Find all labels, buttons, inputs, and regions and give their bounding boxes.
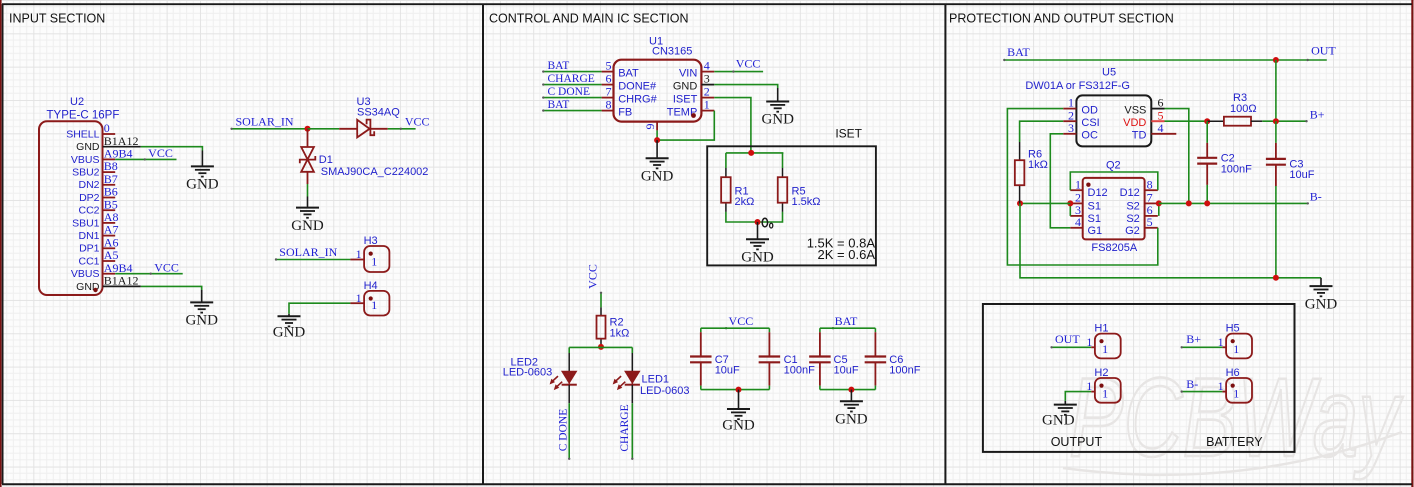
svg-text:LED-0603: LED-0603 [640,385,690,397]
node junction B- / VSS drop [1186,200,1192,206]
U5 pin 5 VDD [1123,108,1164,129]
U1 pin 8 FB [602,98,633,119]
U2 pin B1A12 GND [76,134,141,153]
svg-text:1: 1 [371,254,377,268]
TVS diode D1 SMAJ90CA [300,129,429,197]
svg-text:GND: GND [76,141,100,153]
svg-text:GND: GND [186,177,219,193]
net flag VCC (U1 VIN) [714,57,763,73]
node junction BAT caps ground [848,387,854,393]
IC U5 DW01A [1025,66,1151,146]
U2 pin A7 DN1 [78,223,118,242]
svg-text:S1: S1 [1088,213,1101,225]
svg-text:1kΩ: 1kΩ [1028,159,1048,171]
ground (H4) [273,314,306,341]
text ISET ratio notes [807,235,876,262]
svg-text:ISET: ISET [835,127,862,141]
svg-text:4: 4 [704,59,710,73]
svg-text:LED1: LED1 [642,373,670,385]
svg-text:10uF: 10uF [1289,169,1314,181]
svg-text:BAT: BAT [1007,45,1030,59]
node junction U1 pin9/TEMP ground [654,137,660,143]
header H5 [1218,323,1252,359]
connector group box OUTPUT/BATTERY [983,304,1295,452]
svg-text:2: 2 [704,85,710,99]
net label OUT (H1) [1050,332,1091,349]
svg-text:OC: OC [1081,130,1098,142]
Q2 pin 3 S1 [1070,203,1101,225]
svg-text:1: 1 [356,291,362,305]
wire VSS to B- rail [1165,109,1189,204]
node junction VDD/C2/R3 [1204,118,1210,124]
net flag VCC (U2 upper VBUS) [115,146,176,160]
svg-text:G1: G1 [1088,225,1103,237]
header H3 [356,235,390,272]
net label B+ (H5) [1181,332,1223,349]
svg-text:2K = 0.6A: 2K = 0.6A [818,247,876,262]
svg-text:DN2: DN2 [78,179,99,191]
wire R1 branch top [725,153,727,168]
U1 pin 3 GND [673,72,714,93]
svg-text:CN3165: CN3165 [652,46,692,58]
svg-text:100nF: 100nF [784,365,815,377]
U5 pin 4 TD [1132,121,1177,142]
node junction VCC caps ground [736,387,742,393]
node junction B- / C2 [1204,200,1210,206]
svg-text:CSI: CSI [1081,117,1099,129]
U2 pin 0 SHELL [66,121,115,140]
Q2 pin 7 S2 [1126,191,1157,213]
svg-text:ISET: ISET [673,93,698,105]
wire CSI to R6 [1020,121,1064,142]
net flag VCC (rotated, R2) [585,264,602,307]
svg-text:DONE#: DONE# [618,80,657,92]
ground (H2) [1042,401,1077,428]
ground (U1 pin3) [761,88,794,128]
wire U1 GND pin3 to ground [714,85,777,88]
svg-text:OD: OD [1081,104,1098,116]
U2 pin B8 SBU2 [72,159,118,178]
capacitor C7 [690,328,740,389]
net label BAT (U1 left) [542,99,602,112]
ISET block frame [707,127,876,266]
svg-text:5: 5 [1147,215,1153,229]
svg-text:H6: H6 [1226,367,1240,379]
svg-text:3: 3 [1068,121,1074,135]
resistor R6 [1015,142,1048,203]
svg-text:SS34AQ: SS34AQ [357,106,400,118]
ground (U2 bottom GND) [185,290,218,329]
svg-text:4: 4 [1158,121,1164,135]
svg-text:GND: GND [641,168,674,184]
U1 pin 9 [643,122,657,141]
no-connect marks [762,218,773,228]
wire Q2 drain tie loop (pins 1-8) [1070,172,1158,190]
svg-text:H5: H5 [1226,323,1240,335]
U2 anchor dot [93,288,97,292]
wire U2 GND(top) to ground [141,147,203,151]
svg-text:SOLAR_IN: SOLAR_IN [236,114,294,128]
U1 pin 7 CHRG# [602,85,658,106]
LED LED1 [613,372,640,391]
node junction Q2 S1 [1067,200,1073,206]
svg-text:B1A12: B1A12 [104,274,139,288]
svg-text:1: 1 [1218,379,1224,393]
wire LED2 cathode / net C DONE [558,385,571,460]
svg-text:VCC: VCC [405,115,430,129]
svg-text:VSS: VSS [1124,104,1146,116]
svg-text:BAT: BAT [548,60,570,72]
ground (protection) [1305,278,1338,312]
svg-text:CHARGE: CHARGE [619,404,631,451]
ground (D1) [291,197,324,234]
svg-text:CHARGE: CHARGE [548,73,595,85]
svg-text:DP1: DP1 [79,243,100,255]
wire LED1 cathode / net CHARGE [619,385,634,460]
svg-text:2kΩ: 2kΩ [735,196,755,208]
svg-text:S2: S2 [1126,213,1139,225]
svg-text:VCC: VCC [736,57,761,71]
U1 pin 1 TEMP [667,98,715,119]
svg-text:GND: GND [1042,412,1075,428]
wire B- rail [1020,202,1308,204]
U1 pin 2 ISET [673,85,714,106]
net flag VCC (U2 lower VBUS) [115,260,183,274]
connector U2 TYPE-C 16PF [39,96,119,295]
wire Q2 S1 tie (pins 2-3) [1069,203,1071,216]
svg-text:H3: H3 [364,235,378,247]
U5 pin 6 VSS [1124,96,1164,117]
svg-text:1: 1 [371,298,377,312]
U5 pin 2 CSI [1063,108,1100,129]
svg-text:1: 1 [1075,177,1081,191]
svg-text:4: 4 [1075,215,1081,229]
svg-text:GND: GND [291,218,324,234]
net label C DONE (U1 left) [542,86,602,99]
node junction ISET top [748,150,754,156]
svg-text:8: 8 [1147,177,1153,191]
svg-text:S2: S2 [1126,200,1139,212]
svg-text:GND: GND [673,80,698,92]
svg-text:OUT: OUT [1055,332,1080,346]
svg-text:1: 1 [1086,379,1092,393]
svg-text:B-: B- [1310,190,1322,204]
wire Q2 S2 tie (pins 6-7) [1158,203,1160,216]
node junction Q2 S2 [1156,200,1162,206]
capacitor C5 [809,328,859,389]
svg-text:VCC: VCC [154,260,179,274]
svg-text:H2: H2 [1094,367,1108,379]
svg-text:100nF: 100nF [889,365,920,377]
node junction SOLAR_IN [305,126,311,132]
svg-text:H1: H1 [1094,323,1108,335]
svg-text:VBUS: VBUS [71,268,100,280]
net label BAT (top rail) [1003,45,1327,61]
U2 pin B5 CC2 [78,197,117,216]
svg-text:H4: H4 [364,280,378,292]
wire H4 to ground [289,303,364,314]
net flag BAT (decoupling group) [832,314,858,330]
U5 pin 3 OC [1063,121,1098,142]
svg-text:BAT: BAT [548,99,570,111]
capacitor C3 [1266,121,1315,186]
svg-text:1.5kΩ: 1.5kΩ [792,196,821,208]
net label BAT (U1 left) [542,60,602,73]
svg-text:SBU1: SBU1 [72,217,100,229]
header H2 [1086,367,1120,403]
svg-text:1: 1 [1102,342,1108,356]
U5 pin 1 OD [1063,96,1098,117]
wire VCC cap rails [701,328,770,389]
svg-text:OUT: OUT [1311,44,1336,58]
wire ISET top rail [726,152,784,154]
svg-text:GND: GND [722,418,755,434]
node junction R6/S1 node [1017,200,1023,206]
svg-text:FS8205A: FS8205A [1091,242,1138,254]
wire S1 node to ground rail [1020,203,1321,277]
capacitor C6 [865,328,921,389]
svg-text:Q2: Q2 [1106,160,1121,172]
svg-text:G2: G2 [1125,225,1140,237]
net label SOLAR_IN (H3) [275,245,351,261]
svg-text:PROTECTION AND OUTPUT SECTION: PROTECTION AND OUTPUT SECTION [949,12,1174,26]
U2 pin B7 DN2 [78,172,117,191]
transistor Q2 FS8205A [1083,160,1145,254]
svg-text:CHRG#: CHRG# [618,93,657,105]
header H4 [356,280,390,316]
svg-text:VCC: VCC [585,264,599,289]
ground (VCC caps) [722,390,755,434]
wire R5 branch top [782,153,784,168]
svg-text:C DONE: C DONE [548,86,591,98]
text LED1 labels [640,373,690,397]
wire C3 bottom to ground rail [1275,186,1277,278]
wire R3 to B+ [1262,120,1306,122]
svg-text:VIN: VIN [679,67,697,79]
svg-text:B+: B+ [1186,332,1201,346]
svg-text:GND: GND [273,325,306,341]
ground (ISET) [741,222,774,265]
resistor R1 [721,168,754,212]
wire top rail to B+ node [1275,60,1277,121]
svg-text:INPUT SECTION: INPUT SECTION [9,12,105,26]
U2 pin A5 CC1 [78,248,118,267]
net label B+ [1305,108,1324,123]
svg-text:S1: S1 [1088,200,1101,212]
text LED2 labels [503,356,553,378]
wire U1 ISET pin2 to ISET network [714,98,751,153]
wire ISET bottom rail [726,212,783,222]
diode U3 SS34AQ [339,96,400,137]
net label CHARGE (U1 left) [542,73,602,86]
IC U1 CN3165 [614,35,702,121]
svg-text:TYPE-C 16PF: TYPE-C 16PF [47,109,120,121]
svg-text:GND: GND [1305,296,1338,312]
svg-text:100nF: 100nF [1221,163,1252,175]
svg-text:1: 1 [1218,335,1224,349]
svg-text:1: 1 [1102,387,1108,401]
svg-text:GND: GND [835,411,868,427]
Q2 pin 6 S2 [1126,203,1157,225]
svg-text:FB: FB [618,106,632,118]
svg-text:D1: D1 [319,154,333,166]
wire H5 pin stub [1222,346,1226,348]
wire SOLAR_IN to D1/U3 [308,128,340,130]
net label B- [1307,190,1322,205]
wire H6 pin stub [1222,391,1226,393]
svg-text:GND: GND [185,313,218,329]
wire OC to G1 (pin4) [1050,134,1070,228]
header H1 [1086,323,1120,359]
svg-text:TD: TD [1132,130,1147,142]
wire U2 GND(bottom) to ground [141,286,202,290]
ground (BAT caps) [835,390,868,428]
svg-text:10uF: 10uF [834,365,859,377]
capacitor C1 [759,328,815,389]
Q2 pin 1 D12 [1070,177,1107,199]
svg-text:SHELL: SHELL [66,128,99,140]
svg-text:D12: D12 [1088,187,1108,199]
node junction top rail [1273,57,1279,63]
svg-text:9: 9 [643,124,657,130]
svg-text:5: 5 [606,59,612,73]
resistor R5 [778,168,821,212]
svg-text:CONTROL AND MAIN IC SECTION: CONTROL AND MAIN IC SECTION [489,12,689,26]
wire BAT cap rails [820,328,876,389]
wire LED2 branch [568,347,570,371]
svg-text:B-: B- [1186,377,1198,391]
wire H2 to ground [1065,392,1095,401]
svg-text:U5: U5 [1102,66,1116,78]
svg-text:BATTERY: BATTERY [1206,435,1263,449]
svg-text:SOLAR_IN: SOLAR_IN [279,245,337,259]
U1 pin 4 VIN [679,59,714,80]
svg-text:CC1: CC1 [78,255,99,267]
node junction B+ / C3 [1273,118,1279,124]
svg-text:VCC: VCC [729,314,754,328]
svg-text:DW01A or FS312F-G: DW01A or FS312F-G [1025,80,1130,92]
wire LED rail [569,346,632,348]
svg-text:6: 6 [606,72,612,86]
svg-text:1: 1 [1233,387,1239,401]
svg-text:1: 1 [356,247,362,261]
svg-text:7: 7 [606,85,612,99]
resistor R2 [597,307,630,347]
resistor R3 100 [1207,92,1262,126]
svg-text:BAT: BAT [618,67,639,79]
svg-text:1: 1 [1086,335,1092,349]
U2 pin A8 SBU1 [72,210,118,229]
svg-text:BAT: BAT [835,314,858,328]
ground (U1 pin9) [641,140,674,184]
U2 pin A9B4 VBUS [71,147,133,166]
svg-text:VCC: VCC [148,146,173,160]
net label B- (H6) [1181,377,1223,393]
svg-text:1: 1 [704,98,710,112]
svg-text:3: 3 [704,72,710,86]
wire H1 pin stub [1091,346,1095,348]
Q2 pin 5 G2 [1125,215,1158,237]
wire U1 TEMP pin1 to ground node [657,111,714,141]
svg-text:B+: B+ [1310,108,1325,122]
net flag VCC (after U3) [388,115,430,130]
svg-text:VDD: VDD [1123,117,1146,129]
svg-text:LED-0603: LED-0603 [503,366,553,378]
Q2 pin 4 G1 [1070,215,1102,237]
svg-text:10uF: 10uF [715,365,740,377]
U2 pin A9B4 VBUS [71,261,133,280]
svg-text:SMAJ90CA_C224002: SMAJ90CA_C224002 [321,166,429,178]
svg-text:C DONE: C DONE [558,409,570,452]
wire H3 pin stub [350,259,364,261]
svg-text:DN1: DN1 [78,230,99,242]
svg-text:DP2: DP2 [79,192,100,204]
ground (U2 top GND) [186,151,219,193]
header H6 [1218,367,1252,403]
Q2 pin 8 D12 [1120,177,1158,199]
svg-text:100Ω: 100Ω [1230,103,1257,115]
svg-text:VBUS: VBUS [71,154,100,166]
svg-text:CC2: CC2 [78,205,99,217]
wire OD to G2 (pin5) loop [1007,109,1157,265]
net flag VCC (decoupling group) [725,314,753,330]
Q2 pin 2 S1 [1070,191,1101,213]
node junction ground rail / C3 [1273,275,1279,281]
wire VDD to node [1165,120,1208,122]
svg-text:1: 1 [1233,342,1239,356]
svg-text:GND: GND [741,249,774,265]
wire LED1 branch [631,347,633,371]
U2 pin B6 DP2 [79,185,118,204]
svg-text:1kΩ: 1kΩ [610,327,630,339]
node junction ISET bottom [755,219,761,225]
svg-text:GND: GND [761,112,794,128]
LED LED2 [550,372,577,391]
svg-text:OUTPUT: OUTPUT [1051,435,1103,449]
svg-text:8: 8 [606,98,612,112]
node junction LED rail [598,344,604,350]
U1 pin 1 marker dot [691,113,696,118]
U1 pin 6 DONE# [602,72,657,93]
watermark PCBWay [1069,354,1403,480]
U1 pin 5 BAT [602,59,639,80]
svg-text:SBU2: SBU2 [72,167,100,179]
svg-text:U2: U2 [70,96,84,108]
U2 pin A6 DP1 [79,235,118,254]
svg-text:D12: D12 [1120,187,1140,199]
net label SOLAR_IN (top) [230,114,307,130]
U2 pin B1A12 GND [76,274,141,293]
capacitor C2 [1197,121,1252,203]
